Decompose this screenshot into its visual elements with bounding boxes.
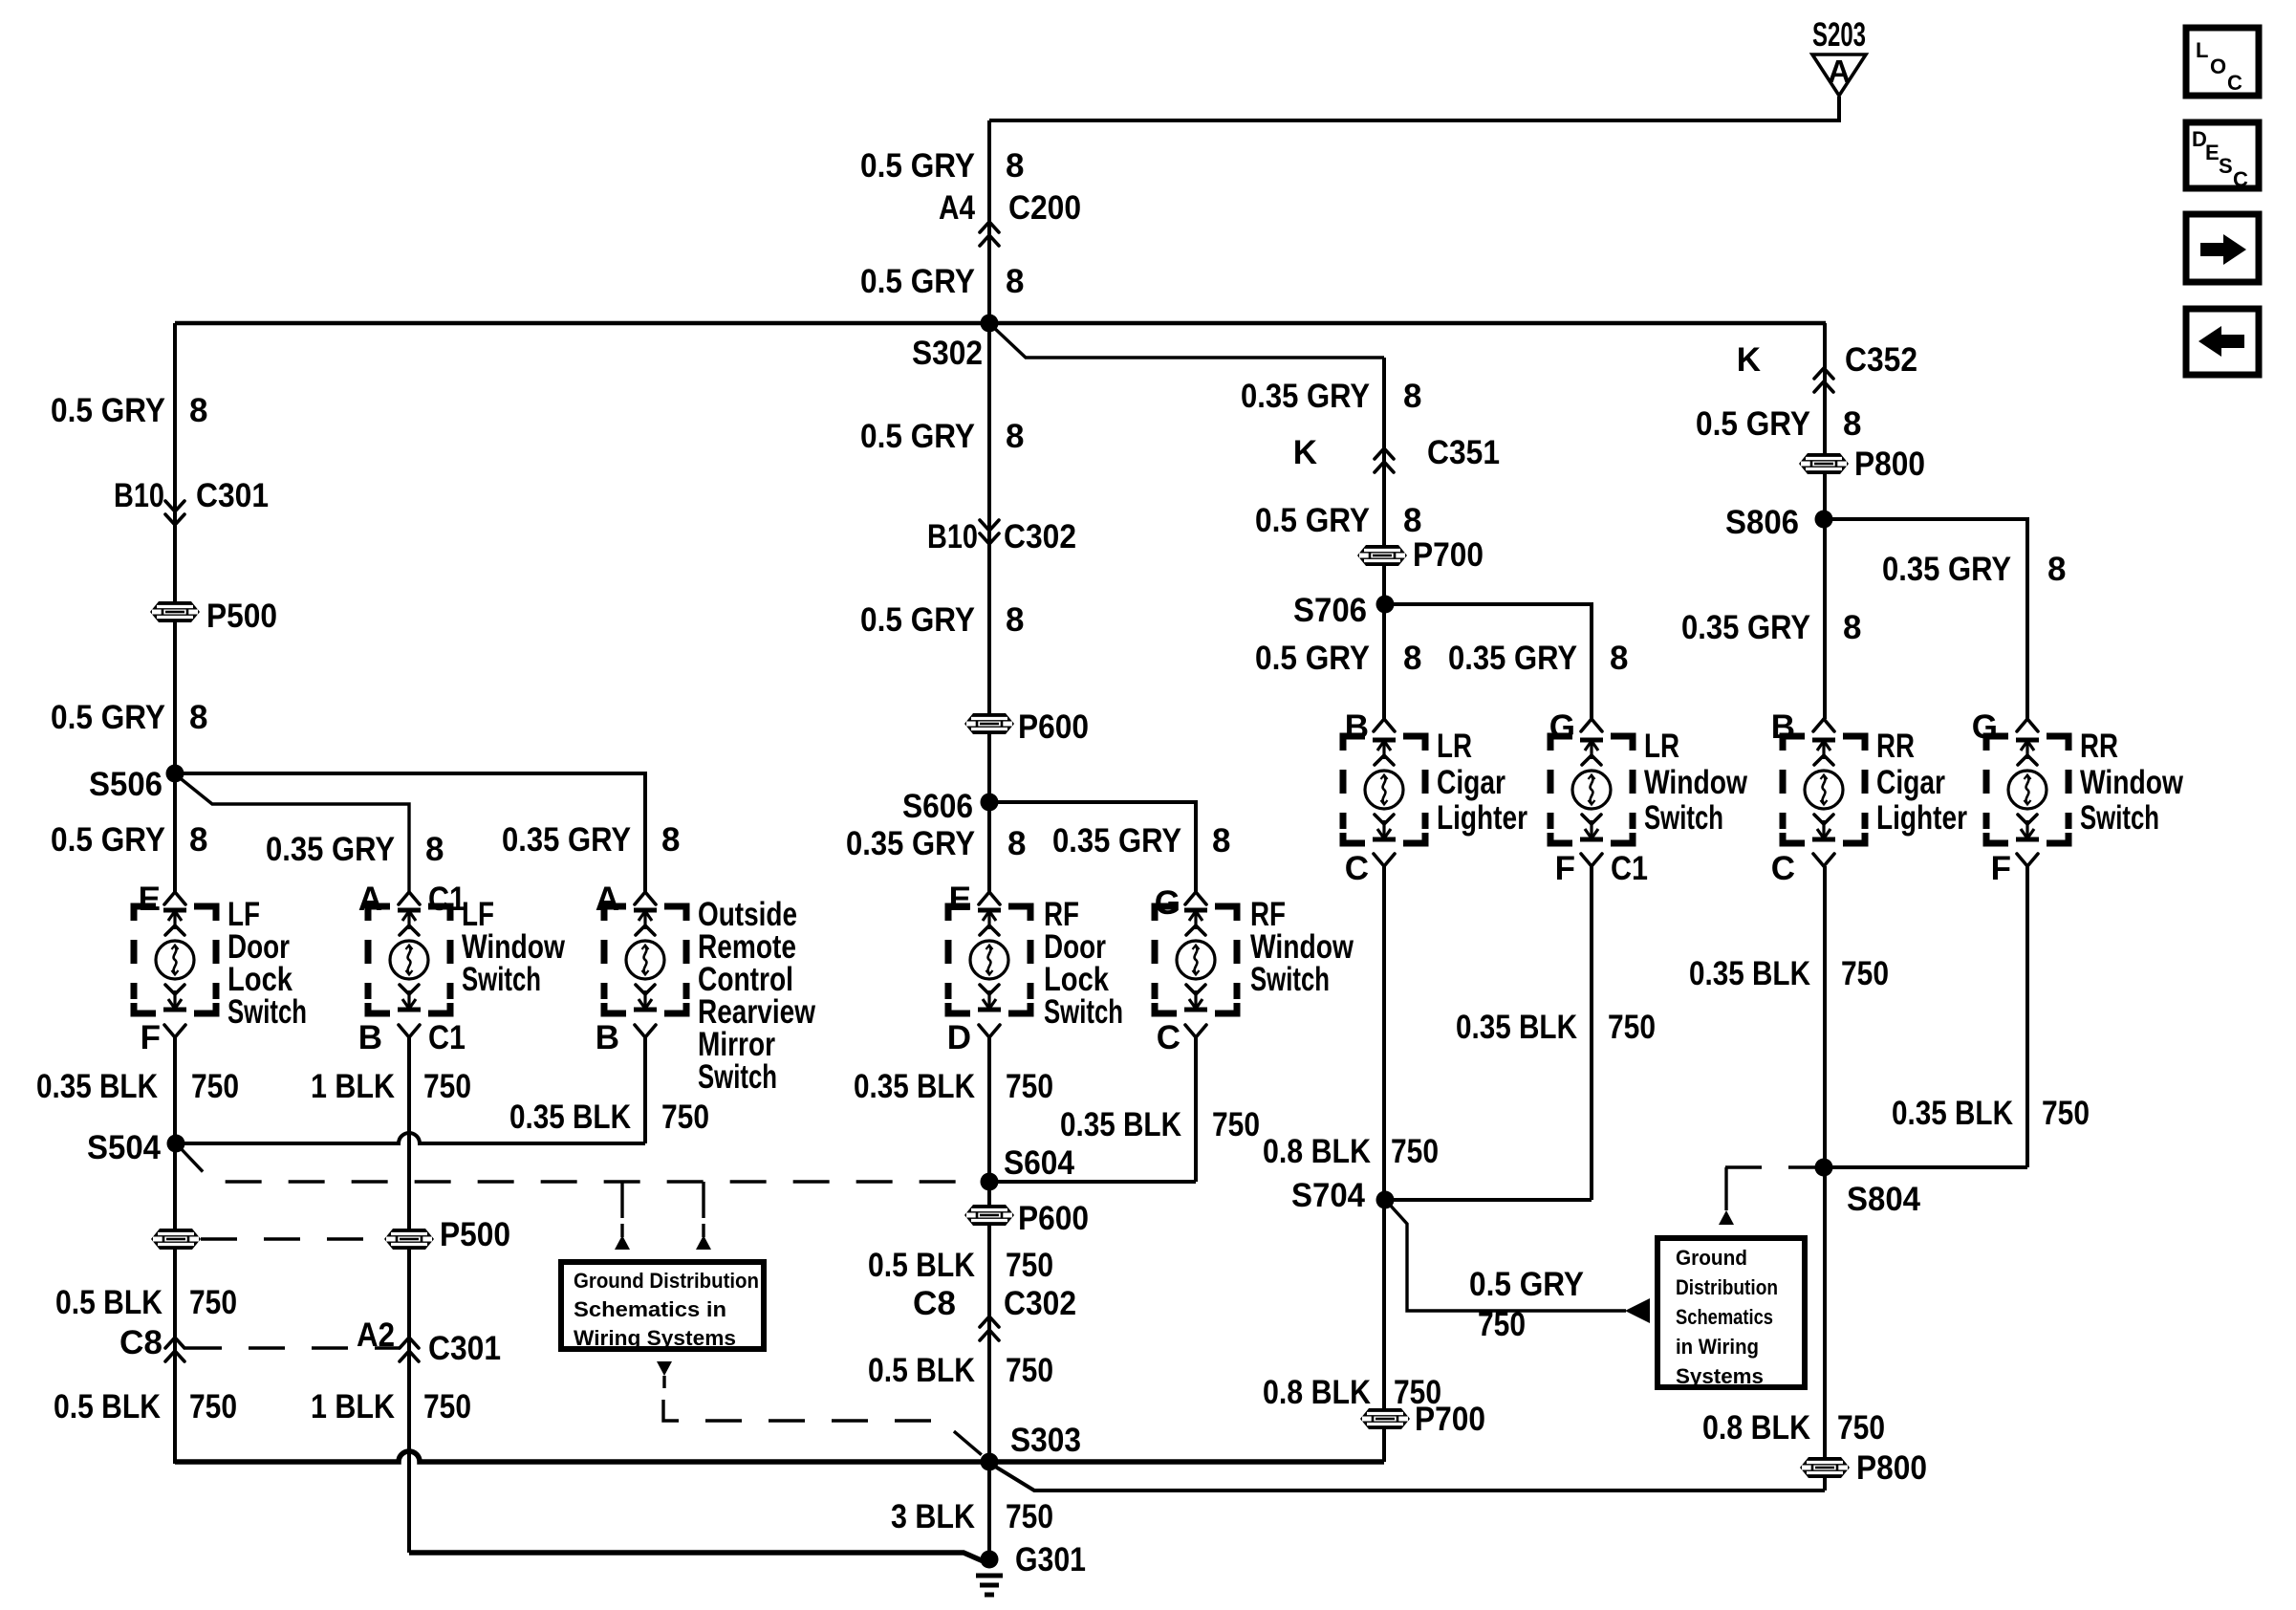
label wire 0.8 BLK 750 above S704 <box>1263 1133 1439 1170</box>
label pin E LF door lock <box>139 881 161 918</box>
wire right rail lower through S804 P800 to S303 line <box>1823 866 1827 1490</box>
svg-text:A: A <box>358 881 382 918</box>
switch RR Cigar Lighter <box>1783 719 1865 866</box>
wire LF window column lower <box>407 1037 411 1553</box>
svg-text:0.5 GRY: 0.5 GRY <box>51 821 165 859</box>
wire center rail lower <box>987 1037 991 1559</box>
splice S704 <box>1376 1191 1395 1209</box>
svg-text:0.8 BLK: 0.8 BLK <box>1263 1133 1371 1170</box>
svg-text:C351: C351 <box>1427 434 1500 471</box>
svg-text:8: 8 <box>1006 147 1024 185</box>
svg-text:C8: C8 <box>119 1324 162 1361</box>
label grommet P700 lower <box>1415 1401 1485 1438</box>
svg-text:F: F <box>141 1019 161 1056</box>
svg-text:750: 750 <box>1391 1133 1439 1170</box>
svg-text:8: 8 <box>2047 551 2066 588</box>
label pin K connector C351 <box>1293 434 1500 471</box>
grommet P600 on center rail <box>964 713 1014 734</box>
dashed stub to right ground distribution arrow <box>1724 1167 1727 1198</box>
svg-text:0.5 BLK: 0.5 BLK <box>868 1352 975 1389</box>
wire S704 stub to ground distribution reference <box>1388 1203 1626 1311</box>
label LR Window Switch <box>1644 728 1748 837</box>
wire S606 branch to RF window column y=839 <box>989 802 1196 892</box>
svg-text:S504: S504 <box>87 1129 161 1166</box>
label wire 0.35 GRY 8 LR window feed <box>1448 640 1628 677</box>
dashed stub to ground distribution arrow left <box>620 1182 623 1226</box>
svg-text:8: 8 <box>1007 825 1026 862</box>
svg-text:P700: P700 <box>1415 1401 1485 1438</box>
svg-text:0.5 GRY: 0.5 GRY <box>1255 640 1370 677</box>
label pin B10 connector C301 <box>114 477 269 514</box>
wire RF window column lower <box>1194 1037 1198 1182</box>
label wire 0.35 GRY 8 mirror feed <box>502 821 680 859</box>
svg-text:C200: C200 <box>1008 189 1081 227</box>
svg-text:750: 750 <box>1006 1247 1053 1284</box>
connector C302 lower inline chevrons up <box>980 1316 999 1340</box>
wire S804 ground header y=1221 to RR window column <box>1824 1165 2027 1169</box>
arrow down out of left ground distribution box <box>657 1361 672 1388</box>
svg-text:Schematics in: Schematics in <box>574 1297 726 1321</box>
svg-text:8: 8 <box>189 392 207 429</box>
svg-text:750: 750 <box>1837 1409 1885 1447</box>
label wire 0.5 BLK 750 above S303 <box>868 1352 1053 1389</box>
label wire 0.5 GRY 8 below S302 <box>860 418 1024 455</box>
svg-text:750: 750 <box>423 1068 471 1105</box>
label wire 0.35 GRY 8 LF window feed <box>266 831 444 868</box>
svg-text:750: 750 <box>1608 1009 1656 1046</box>
svg-text:C302: C302 <box>1004 1285 1076 1322</box>
svg-text:750: 750 <box>661 1099 709 1136</box>
grommet P800 on right rail <box>1799 453 1849 474</box>
svg-text:in Wiring: in Wiring <box>1676 1335 1759 1359</box>
svg-text:C: C <box>2227 71 2242 95</box>
wire bottom ground run from LF window column to G301 <box>409 1553 986 1562</box>
svg-text:D: D <box>947 1019 971 1056</box>
connector C200 inline chevrons <box>980 222 999 246</box>
svg-text:F: F <box>1991 850 2011 887</box>
svg-text:C302: C302 <box>1004 518 1076 555</box>
wire LR cigar column lower through S704 and P700 to ground bus <box>1382 866 1386 1462</box>
svg-text:S804: S804 <box>1847 1181 1920 1218</box>
svg-text:0.8 BLK: 0.8 BLK <box>1263 1374 1371 1411</box>
dashed wire right ground box header <box>1725 1165 1824 1168</box>
svg-text:750: 750 <box>1841 955 1889 992</box>
label RR Window Switch <box>2080 728 2184 837</box>
label splice S606 <box>902 788 973 825</box>
svg-text:Switch: Switch <box>698 1058 777 1096</box>
svg-text:G: G <box>1972 708 1998 746</box>
svg-text:Ground: Ground <box>1676 1246 1747 1270</box>
label pin B RR cigar <box>1771 708 1795 746</box>
splice symbol S203 triangle with A <box>1812 16 1866 96</box>
svg-text:750: 750 <box>1478 1306 1526 1343</box>
svg-text:S203: S203 <box>1812 16 1866 54</box>
svg-text:Switch: Switch <box>1044 993 1123 1031</box>
svg-text:Distribution: Distribution <box>1676 1275 1778 1299</box>
wire S302 branch to LR feeder y=374 <box>992 326 1384 358</box>
svg-text:0.35 GRY: 0.35 GRY <box>1882 551 2011 588</box>
splice S806 <box>1815 511 1833 529</box>
label pin G RR window <box>1972 708 1998 746</box>
label pin D RF door lock <box>947 1019 971 1056</box>
switch LR Cigar Lighter <box>1343 719 1425 866</box>
grommet P500 lower left rail <box>151 1229 201 1250</box>
svg-text:8: 8 <box>1610 640 1628 677</box>
svg-text:0.5 GRY: 0.5 GRY <box>1696 405 1810 443</box>
svg-text:Window: Window <box>1644 764 1748 801</box>
label pin C8 left rail <box>119 1324 162 1361</box>
label pin F LF door lock <box>141 1019 161 1056</box>
ground G301 <box>976 1551 1003 1596</box>
grommet P500 on LF window column <box>384 1229 434 1250</box>
label wire 0.5 GRY 8 above P600 <box>860 601 1024 639</box>
splice S303 <box>981 1453 999 1471</box>
svg-text:Ground Distribution: Ground Distribution <box>574 1269 759 1293</box>
label pin B10 connector C302 <box>927 518 1076 555</box>
reference box Ground Distribution right <box>1657 1238 1805 1388</box>
label splice S303 <box>1010 1422 1081 1459</box>
grommet P700 on LR feeder <box>1357 545 1407 566</box>
grommet P600 lower center rail <box>964 1205 1014 1226</box>
svg-text:0.35 GRY: 0.35 GRY <box>1448 640 1577 677</box>
wire top feed horizontal from S203 to center rail <box>989 97 1839 120</box>
wire left rail lower <box>173 1037 177 1464</box>
svg-text:0.5 GRY: 0.5 GRY <box>51 699 165 736</box>
svg-text:8: 8 <box>661 821 680 859</box>
svg-text:C8: C8 <box>913 1285 956 1322</box>
splice S706 <box>1376 596 1395 614</box>
label pin B LR cigar <box>1345 708 1369 746</box>
wire S604 ground header y=1236 to RF window column <box>989 1180 1196 1184</box>
svg-text:RR: RR <box>1876 728 1915 765</box>
wire S704 ground header y=1255 to LR window column <box>1385 1198 1592 1202</box>
svg-text:E: E <box>2205 141 2220 164</box>
legend box arrow left <box>2186 309 2259 375</box>
svg-text:0.5 GRY: 0.5 GRY <box>1469 1266 1584 1303</box>
label wire 0.35 BLK 750 RF window return <box>1060 1106 1260 1143</box>
label wire 0.5 GRY 8 below S506 <box>51 821 207 859</box>
svg-text:8: 8 <box>1403 502 1421 539</box>
svg-text:0.35 BLK: 0.35 BLK <box>854 1068 975 1105</box>
svg-text:S706: S706 <box>1293 592 1367 629</box>
label pin C RR cigar <box>1771 850 1795 887</box>
svg-text:K: K <box>1293 434 1317 471</box>
switch Outside Remote Control Rearview Mirror Switch <box>604 892 686 1037</box>
label wire 0.35 BLK 750 below LF door lock <box>36 1068 239 1105</box>
svg-text:1 BLK: 1 BLK <box>311 1388 395 1425</box>
svg-text:S806: S806 <box>1725 504 1799 541</box>
label wire 0.5 GRY 8 right rail <box>1696 405 1861 443</box>
label wire 0.35 GRY 8 RR window feed <box>1882 551 2066 588</box>
label wire 0.35 BLK 750 RR window return <box>1892 1095 2090 1132</box>
switch RF Door Lock Switch <box>948 892 1030 1037</box>
grommet P800 lower right rail <box>1800 1457 1850 1478</box>
svg-text:750: 750 <box>189 1388 237 1425</box>
wire main horizontal bus y=338 from left rail to right rail <box>175 321 1826 326</box>
svg-text:750: 750 <box>423 1388 471 1425</box>
label pin B connector C1 LF window <box>358 1019 466 1056</box>
reference box Ground Distribution left <box>561 1262 764 1350</box>
svg-text:Window: Window <box>2080 764 2184 801</box>
svg-text:S606: S606 <box>902 788 973 825</box>
label splice S704 <box>1291 1177 1365 1214</box>
svg-text:A: A <box>596 881 619 918</box>
svg-text:C: C <box>1157 1019 1180 1056</box>
label grommet P600 <box>1018 708 1089 746</box>
svg-text:8: 8 <box>1006 263 1024 300</box>
svg-text:C301: C301 <box>196 477 269 514</box>
switch RF Window Switch <box>1155 892 1237 1037</box>
label splice S604 <box>1004 1144 1074 1182</box>
svg-text:K: K <box>1737 341 1761 379</box>
label grommet P800 <box>1854 446 1925 483</box>
label wire 0.5 GRY 8 left rail top <box>51 392 207 429</box>
svg-text:0.35 BLK: 0.35 BLK <box>509 1099 631 1136</box>
svg-text:750: 750 <box>189 1284 237 1321</box>
svg-text:Schematics: Schematics <box>1676 1305 1773 1329</box>
svg-text:A: A <box>1828 54 1851 89</box>
wire S806 branch to RR window column y=543 <box>1824 519 2027 719</box>
dashed wire between P500 grommets <box>201 1237 384 1240</box>
svg-text:LR: LR <box>1644 728 1679 765</box>
switch LR Window Switch <box>1550 719 1633 866</box>
connector C352 inline chevrons up <box>1814 368 1833 392</box>
wire ground bus y=1529 from left rail through S303 with hop <box>175 1451 1384 1462</box>
svg-text:0.5 GRY: 0.5 GRY <box>1255 502 1370 539</box>
svg-text:0.5 GRY: 0.5 GRY <box>860 601 975 639</box>
svg-text:L: L <box>2196 38 2208 62</box>
svg-text:Lighter: Lighter <box>1437 799 1527 837</box>
wire right rail upper <box>1823 323 1827 719</box>
legend box LOC <box>2186 28 2259 96</box>
arrow up into dashed stub right <box>696 1224 711 1250</box>
svg-text:C1: C1 <box>428 1019 466 1056</box>
label wire 1 BLK 750 LF window return <box>311 1068 471 1105</box>
svg-text:S604: S604 <box>1004 1144 1074 1182</box>
svg-text:750: 750 <box>1006 1068 1053 1105</box>
svg-text:750: 750 <box>2042 1095 2090 1132</box>
svg-text:S: S <box>2219 154 2233 178</box>
label pin E RF door lock <box>949 881 971 918</box>
legend box DESC <box>2186 122 2259 191</box>
connector C8 inline chevrons up left rail <box>165 1338 184 1361</box>
svg-text:Switch: Switch <box>227 993 307 1031</box>
svg-text:B10: B10 <box>927 518 978 555</box>
svg-text:A2: A2 <box>357 1316 395 1354</box>
svg-text:C1: C1 <box>1611 850 1648 887</box>
label grommet P700 <box>1413 536 1484 574</box>
svg-text:0.35 GRY: 0.35 GRY <box>846 825 975 862</box>
connector C351 inline chevrons up <box>1375 448 1394 472</box>
svg-text:0.35 GRY: 0.35 GRY <box>1241 378 1370 415</box>
svg-text:C352: C352 <box>1845 341 1917 379</box>
label wire 0.35 BLK 750 RR cigar return <box>1689 955 1889 992</box>
label wire 1 BLK 750 lower LF window <box>311 1388 471 1425</box>
svg-text:0.35 GRY: 0.35 GRY <box>502 821 631 859</box>
svg-text:P600: P600 <box>1018 708 1089 746</box>
svg-text:B: B <box>1345 708 1369 746</box>
label splice S804 <box>1847 1181 1920 1218</box>
connector C301 inline chevrons down left rail <box>165 501 184 525</box>
grommet P500 on left rail <box>150 601 200 622</box>
label pin A2 connector C301 LF window column <box>357 1316 501 1367</box>
label wire 0.5 GRY 8 top of center rail <box>860 147 1024 185</box>
svg-text:0.5 GRY: 0.5 GRY <box>860 418 975 455</box>
svg-text:0.5 GRY: 0.5 GRY <box>860 147 975 185</box>
svg-text:750: 750 <box>1006 1498 1053 1535</box>
svg-text:8: 8 <box>425 831 444 868</box>
svg-text:0.35 BLK: 0.35 BLK <box>1456 1009 1577 1046</box>
svg-text:C: C <box>2233 167 2248 191</box>
svg-text:750: 750 <box>191 1068 239 1105</box>
label pin A mirror switch <box>596 881 619 918</box>
svg-text:C: C <box>1345 850 1369 887</box>
svg-text:C301: C301 <box>428 1330 501 1367</box>
svg-text:Switch: Switch <box>2080 799 2159 837</box>
wire RR window column lower <box>2025 866 2029 1167</box>
svg-text:B: B <box>1771 708 1795 746</box>
switch LF Window Switch <box>368 892 450 1037</box>
label ground G301 <box>1015 1541 1086 1578</box>
svg-text:0.35 BLK: 0.35 BLK <box>1892 1095 2013 1132</box>
label splice S504 <box>87 1129 161 1166</box>
label pin G LR window <box>1549 708 1575 746</box>
svg-text:Switch: Switch <box>1250 961 1330 998</box>
svg-text:0.8 BLK: 0.8 BLK <box>1702 1409 1810 1447</box>
svg-text:0.5 GRY: 0.5 GRY <box>860 263 975 300</box>
label wire 0.5 BLK 750 above C302 <box>868 1247 1053 1284</box>
svg-text:P500: P500 <box>440 1216 510 1253</box>
svg-text:0.35 GRY: 0.35 GRY <box>1052 822 1181 859</box>
svg-text:750: 750 <box>1212 1106 1260 1143</box>
svg-text:P500: P500 <box>206 598 277 635</box>
svg-text:E: E <box>139 881 161 918</box>
svg-text:G: G <box>1155 884 1180 922</box>
svg-text:8: 8 <box>1006 418 1024 455</box>
wire center rail upper <box>987 120 991 892</box>
label pin A4 connector C200 <box>939 189 1081 227</box>
svg-text:0.35 BLK: 0.35 BLK <box>36 1068 158 1105</box>
label wire 0.5 BLK 750 below C8 <box>54 1388 237 1425</box>
svg-text:Switch: Switch <box>1644 799 1723 837</box>
connector C302 inline chevrons down <box>980 520 999 544</box>
svg-text:0.5 BLK: 0.5 BLK <box>54 1388 161 1425</box>
label splice S806 <box>1725 504 1799 541</box>
wire mirror column lower <box>643 1037 647 1143</box>
label pin C LR cigar <box>1345 850 1369 887</box>
legend box arrow right <box>2186 214 2259 282</box>
svg-text:8: 8 <box>1843 609 1861 646</box>
svg-text:8: 8 <box>1006 601 1024 639</box>
svg-text:750: 750 <box>1006 1352 1053 1389</box>
dashed wire from ground box down to S303 <box>663 1400 987 1460</box>
label wire 0.35 GRY 8 RR cigar feed <box>1681 609 1861 646</box>
wire left rail upper <box>173 323 177 892</box>
label grommet P600 lower <box>1018 1200 1089 1237</box>
svg-text:8: 8 <box>1403 640 1421 677</box>
grommet P700 lower LR column <box>1360 1408 1410 1429</box>
svg-text:A4: A4 <box>939 189 975 227</box>
label pin A connector C1 LF window <box>358 881 466 918</box>
splice S604 <box>981 1173 999 1191</box>
svg-text:C: C <box>1771 850 1795 887</box>
svg-text:P800: P800 <box>1856 1449 1927 1487</box>
arrow up into dashed stub left <box>615 1224 630 1250</box>
label pin F RR window <box>1991 850 2011 887</box>
label grommet P800 lower <box>1856 1449 1927 1487</box>
splice S506 <box>166 765 184 783</box>
label pin B mirror switch <box>596 1019 619 1056</box>
label LF Door Lock Switch <box>227 896 307 1031</box>
svg-text:S302: S302 <box>912 335 983 372</box>
arrow up into right dashed stub <box>1719 1198 1734 1225</box>
svg-text:E: E <box>949 881 971 918</box>
svg-text:S506: S506 <box>89 766 162 803</box>
label splice S302 <box>912 335 983 372</box>
svg-text:C1: C1 <box>428 881 466 918</box>
label wire 0.5 GRY 8 LR cigar feed <box>1255 640 1421 677</box>
arrow to ground distribution schematics left-pointing <box>1625 1298 1650 1323</box>
svg-text:0.35 GRY: 0.35 GRY <box>1681 609 1810 646</box>
svg-text:Lighter: Lighter <box>1876 799 1967 837</box>
splice S504 <box>167 1135 185 1153</box>
dashed wire between C8 and A2 connectors <box>185 1346 400 1349</box>
svg-text:Wiring Systems: Wiring Systems <box>574 1326 736 1350</box>
splice S804 <box>1815 1159 1833 1177</box>
label RF Door Lock Switch <box>1044 896 1123 1031</box>
label LF Window Switch <box>462 896 566 998</box>
svg-text:0.5 GRY: 0.5 GRY <box>51 392 165 429</box>
splice S606 <box>981 794 999 812</box>
wire S504 ground header y=1196 with hop over LF window column <box>176 1133 645 1143</box>
svg-text:0.35 BLK: 0.35 BLK <box>1060 1106 1181 1143</box>
svg-text:LR: LR <box>1437 728 1472 765</box>
wire S706 branch to LR window column y=632 <box>1385 604 1592 719</box>
svg-text:P800: P800 <box>1854 446 1925 483</box>
label LR Cigar Lighter <box>1437 728 1527 837</box>
switch RR Window Switch <box>1986 719 2069 866</box>
dashed stub to ground distribution arrow right <box>702 1182 704 1226</box>
label wire 0.8 BLK 750 above P700 lower <box>1263 1374 1441 1411</box>
label splice S706 <box>1293 592 1367 629</box>
svg-text:8: 8 <box>1843 405 1861 443</box>
connector C301 inline chevrons up LF window column <box>400 1338 419 1361</box>
wire LR window column lower <box>1590 866 1593 1200</box>
label wire 0.5 GRY 8 above S506 <box>51 699 207 736</box>
label wire 0.8 BLK 750 right rail <box>1702 1409 1885 1447</box>
svg-text:1 BLK: 1 BLK <box>311 1068 395 1105</box>
wire S303 branch to right rail y=1559 <box>992 1465 1825 1490</box>
svg-text:8: 8 <box>189 699 207 736</box>
dashed wire from S504 to S604 ground path <box>178 1145 989 1182</box>
label wire 3 BLK 750 <box>891 1498 1053 1535</box>
svg-text:P700: P700 <box>1413 536 1484 574</box>
svg-text:Systems: Systems <box>1676 1364 1764 1388</box>
switch LF Door Lock Switch <box>134 892 216 1037</box>
svg-text:O: O <box>2210 54 2226 78</box>
svg-text:3 BLK: 3 BLK <box>891 1498 975 1535</box>
wire LR cigar column upper from C351 connector <box>1382 358 1386 719</box>
wire S506 branch to LF window column y=841 <box>178 776 409 892</box>
svg-text:G: G <box>1549 708 1575 746</box>
svg-text:S704: S704 <box>1291 1177 1365 1214</box>
label wire 0.35 GRY 8 below S606 <box>846 825 1026 862</box>
label wire 0.5 GRY 8 above S302 <box>860 263 1024 300</box>
svg-text:0.35 GRY: 0.35 GRY <box>266 831 395 868</box>
svg-text:Switch: Switch <box>462 961 541 998</box>
label RF Window Switch <box>1250 896 1354 998</box>
svg-text:G301: G301 <box>1015 1541 1086 1578</box>
